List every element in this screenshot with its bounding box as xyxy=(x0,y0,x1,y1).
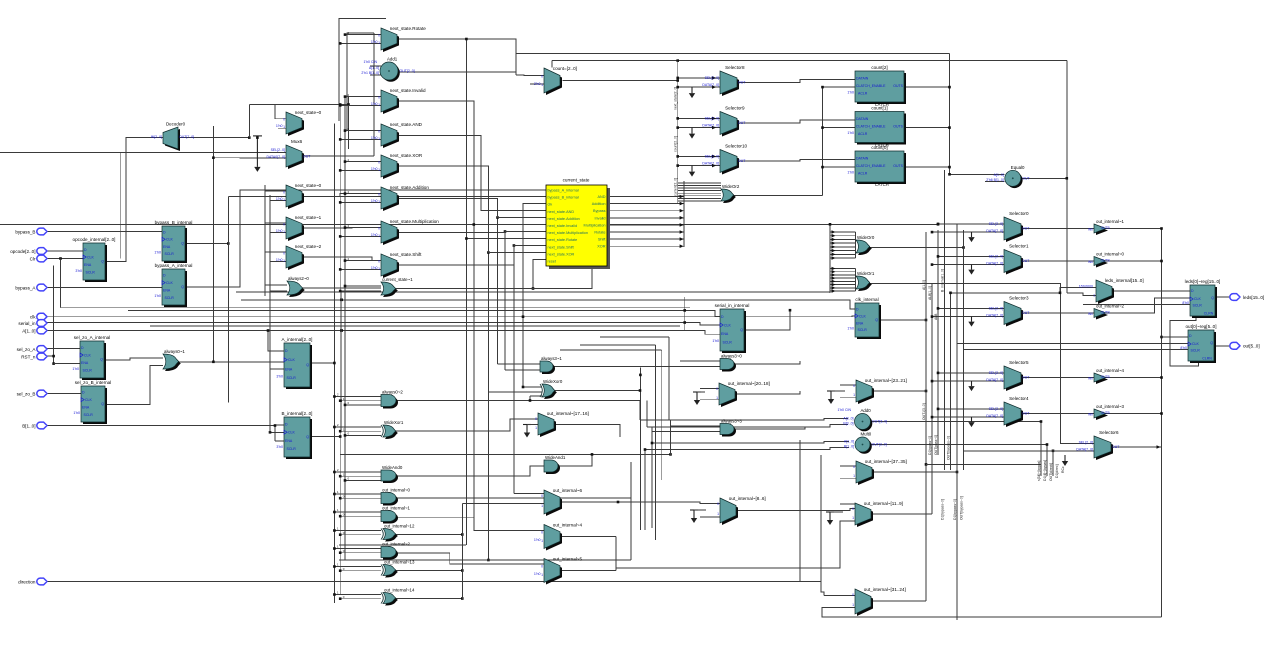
svg-text:out[0]~reg[5..0]: out[0]~reg[5..0] xyxy=(1185,324,1216,329)
svg-text:SEL[2..0]: SEL[2..0] xyxy=(705,76,719,80)
svg-text:0: 0 xyxy=(541,494,543,498)
svg-text:0: 0 xyxy=(378,95,380,99)
svg-text:out_internal~[17..16]: out_internal~[17..16] xyxy=(547,411,589,416)
svg-text:D1[4]~[bypas]: D1[4]~[bypas] xyxy=(1043,460,1047,481)
svg-text:count[2]: count[2] xyxy=(871,65,887,70)
svg-text:RST_n: RST_n xyxy=(21,354,36,359)
svg-text:OUTB: OUTB xyxy=(1101,258,1111,262)
svg-text:OUT[pass~0]: OUT[pass~0] xyxy=(934,435,938,455)
svg-text:Multiplication: Multiplication xyxy=(584,223,606,227)
svg-text:D1[bypass~0]: D1[bypass~0] xyxy=(953,499,957,520)
svg-text:out_internal~[11..9]: out_internal~[11..9] xyxy=(864,501,903,506)
svg-text:DATAIN: DATAIN xyxy=(856,77,869,81)
svg-text:1'h0: 1'h0 xyxy=(847,90,854,94)
svg-text:2'h6 B[1..0]: 2'h6 B[1..0] xyxy=(986,178,1004,182)
svg-text:bypass_A_internal: bypass_A_internal xyxy=(548,189,579,193)
svg-text:OUT1[3..0]: OUT1[3..0] xyxy=(922,403,926,420)
svg-text:OUT[7..0]: OUT[7..0] xyxy=(179,135,194,139)
svg-text:OUTB: OUTB xyxy=(1101,375,1111,379)
svg-text:Q: Q xyxy=(875,318,878,322)
svg-text:Q: Q xyxy=(740,328,743,332)
svg-text:current[2..0]: current[2..0] xyxy=(674,178,678,196)
svg-text:1'h0: 1'h0 xyxy=(154,294,161,298)
svg-text:ENA: ENA xyxy=(81,361,89,365)
svg-text:ALB[1..0]: ALB[1..0] xyxy=(928,286,932,300)
svg-text:out_internal~[23..21]: out_internal~[23..21] xyxy=(865,378,907,383)
svg-text:DATA[7..0]: DATA[7..0] xyxy=(702,83,719,87)
svg-text:Q: Q xyxy=(181,242,184,246)
svg-text:1'h0: 1'h0 xyxy=(847,131,854,135)
svg-text:SEL[2..0]: SEL[2..0] xyxy=(989,371,1003,375)
svg-text:Equal0: Equal0 xyxy=(1011,165,1025,170)
svg-text:OUTS: OUTS xyxy=(893,84,903,88)
svg-text:next_state.XOR: next_state.XOR xyxy=(548,252,575,256)
svg-text:sel_zo_B_internal: sel_zo_B_internal xyxy=(75,380,112,385)
svg-text:next_state~0: next_state~0 xyxy=(295,110,322,115)
svg-text:SCLR: SCLR xyxy=(1193,304,1203,308)
svg-text:8'h0: 8'h0 xyxy=(1180,346,1187,350)
svg-text:1'h0: 1'h0 xyxy=(73,411,80,415)
svg-text:OUT[2..0]: OUT[2..0] xyxy=(400,69,415,73)
svg-text:1'h0: 1'h0 xyxy=(371,40,378,44)
svg-text:WideOr0: WideOr0 xyxy=(857,235,875,240)
svg-text:1'h0: 1'h0 xyxy=(371,167,378,171)
svg-text:A[1..0]: A[1..0] xyxy=(369,66,379,70)
svg-text:1'h0: 1'h0 xyxy=(847,170,854,174)
svg-text:0: 0 xyxy=(852,593,854,597)
svg-text:bypass_A_internal: bypass_A_internal xyxy=(155,263,193,268)
svg-text:ENA: ENA xyxy=(163,245,171,249)
svg-text:SCLR: SCLR xyxy=(165,252,175,256)
svg-text:clk_internal: clk_internal xyxy=(855,297,878,302)
svg-text:1'h0: 1'h0 xyxy=(276,229,283,233)
svg-text:out_internal~2: out_internal~2 xyxy=(382,541,411,546)
svg-text:IN0: IN0 xyxy=(1088,227,1093,231)
svg-text:Selector10: Selector10 xyxy=(725,144,747,149)
svg-text:DATA[7..0]: DATA[7..0] xyxy=(986,314,1003,318)
svg-text:2'h1 B[1..0]: 2'h1 B[1..0] xyxy=(361,71,379,75)
svg-text:out_internal~12: out_internal~12 xyxy=(384,523,415,528)
svg-text:Mux6: Mux6 xyxy=(291,139,303,144)
svg-text:OUTS: OUTS xyxy=(893,125,903,129)
svg-text:Q: Q xyxy=(100,358,103,362)
svg-text:1: 1 xyxy=(853,393,855,397)
svg-text:Selector3: Selector3 xyxy=(1009,296,1029,301)
svg-text:1: 1 xyxy=(378,234,380,238)
svg-text:out_internal~0: out_internal~0 xyxy=(382,487,411,492)
svg-text:SEL[2..0]: SEL[2..0] xyxy=(989,407,1003,411)
svg-text:0: 0 xyxy=(716,387,718,391)
svg-text:Q: Q xyxy=(181,285,184,289)
svg-text:Selector4: Selector4 xyxy=(1009,396,1029,401)
svg-text:out_internal~4: out_internal~4 xyxy=(553,523,583,528)
svg-text:next_state.Shift: next_state.Shift xyxy=(390,252,422,257)
svg-text:current_state~1: current_state~1 xyxy=(382,277,413,282)
svg-text:D1[direc]: D1[direc] xyxy=(1055,464,1059,478)
svg-text:sel_zo_B: sel_zo_B xyxy=(17,391,36,396)
svg-text:next_state[2..0]: next_state[2..0] xyxy=(674,87,678,110)
svg-text:B[3..0]: B[3..0] xyxy=(843,421,853,425)
svg-text:out_internal~[31..24]: out_internal~[31..24] xyxy=(864,587,906,592)
svg-text:always0~1: always0~1 xyxy=(164,349,185,354)
svg-text:1: 1 xyxy=(283,125,285,129)
svg-text:SEL[2..0]: SEL[2..0] xyxy=(1079,440,1093,444)
svg-text:out_internal~1: out_internal~1 xyxy=(382,505,411,510)
svg-text:DATAIN: DATAIN xyxy=(856,157,869,161)
svg-text:1: 1 xyxy=(535,426,537,430)
svg-text:1: 1 xyxy=(541,539,543,543)
svg-text:WideXor1: WideXor1 xyxy=(384,420,404,425)
svg-text:B_internal[1..0]: B_internal[1..0] xyxy=(941,269,945,292)
svg-text:Q: Q xyxy=(306,435,309,439)
svg-text:1: 1 xyxy=(378,267,380,271)
svg-text:3'h0: 3'h0 xyxy=(276,445,283,449)
svg-text:DATA0[7..0]: DATA0[7..0] xyxy=(266,155,285,159)
svg-text:ACLR: ACLR xyxy=(858,92,868,96)
svg-text:ENA: ENA xyxy=(285,367,293,371)
svg-text:Selector1: Selector1 xyxy=(1009,244,1029,249)
svg-text:1: 1 xyxy=(541,83,543,87)
svg-text:out_internal~5: out_internal~5 xyxy=(553,557,583,562)
svg-text:1: 1 xyxy=(378,168,380,172)
svg-text:SEL[2..0]: SEL[2..0] xyxy=(989,254,1003,258)
svg-text:OUTB: OUTB xyxy=(1101,310,1111,314)
svg-text:Q: Q xyxy=(101,402,104,406)
svg-text:leds_internal[15..0]: leds_internal[15..0] xyxy=(1105,278,1144,283)
svg-text:CLK: CLK xyxy=(84,353,91,357)
svg-text:next_state.XOR: next_state.XOR xyxy=(390,153,423,158)
svg-text:ACLR: ACLR xyxy=(858,132,868,136)
svg-text:1'h0 CIN: 1'h0 CIN xyxy=(837,408,851,412)
svg-text:3'h0: 3'h0 xyxy=(276,374,283,378)
svg-text:SCLR: SCLR xyxy=(858,328,868,332)
svg-text:0: 0 xyxy=(541,75,543,79)
svg-text:OUT[bypass~0]: OUT[bypass~0] xyxy=(947,436,951,460)
svg-text:1'h0: 1'h0 xyxy=(72,367,79,371)
svg-text:1: 1 xyxy=(852,603,854,607)
svg-text:Q: Q xyxy=(1211,296,1214,300)
svg-text:1: 1 xyxy=(378,103,380,107)
svg-text:out_internal~13: out_internal~13 xyxy=(384,559,415,564)
svg-text:OUT[3..0]: OUT[3..0] xyxy=(872,443,887,447)
svg-text:CLRN: CLRN xyxy=(1202,357,1212,361)
svg-text:direction: direction xyxy=(18,579,36,584)
svg-text:0: 0 xyxy=(541,531,543,535)
svg-text:next_state.AND: next_state.AND xyxy=(548,210,575,214)
svg-text:1: 1 xyxy=(1093,294,1095,298)
svg-text:1'h0: 1'h0 xyxy=(534,572,541,576)
svg-text:count[1]: count[1] xyxy=(871,106,887,111)
svg-text:SCLR: SCLR xyxy=(83,369,93,373)
svg-text:0: 0 xyxy=(535,417,537,421)
svg-text:CLK: CLK xyxy=(288,358,295,362)
svg-text:WideAnd0: WideAnd0 xyxy=(382,465,403,470)
svg-text:Mult0: Mult0 xyxy=(861,432,872,437)
svg-text:OUT: OUT xyxy=(1022,376,1030,380)
svg-text:0: 0 xyxy=(541,565,543,569)
svg-text:0: 0 xyxy=(378,129,380,133)
svg-text:ENA: ENA xyxy=(84,263,92,267)
svg-text:8'h0: 8'h0 xyxy=(1182,301,1189,305)
svg-text:B[1..0]: B[1..0] xyxy=(22,423,35,428)
svg-text:0: 0 xyxy=(852,507,854,511)
svg-text:next_state.Shift: next_state.Shift xyxy=(548,245,575,249)
svg-text:SEL[2..0]: SEL[2..0] xyxy=(989,306,1003,310)
svg-text:3'h0: 3'h0 xyxy=(75,269,82,273)
svg-text:CLK: CLK xyxy=(859,314,866,318)
svg-text:bypass_A: bypass_A xyxy=(15,285,36,290)
svg-text:0: 0 xyxy=(378,259,380,263)
svg-text:SCLR: SCLR xyxy=(723,341,733,345)
svg-text:sel_zo_A: sel_zo_A xyxy=(17,347,37,352)
svg-text:opcode[2..0]: opcode[2..0] xyxy=(10,249,35,254)
svg-text:OUT: OUT xyxy=(1022,176,1030,180)
svg-text:SEL[2..0]: SEL[2..0] xyxy=(705,116,719,120)
svg-text:out_internal~1: out_internal~1 xyxy=(1096,219,1125,224)
svg-text:CLK: CLK xyxy=(166,238,173,242)
svg-text:OUT: OUT xyxy=(303,155,311,159)
svg-text:1: 1 xyxy=(283,259,285,263)
svg-text:1'h0: 1'h0 xyxy=(276,197,283,201)
svg-text:DATA[7..0]: DATA[7..0] xyxy=(702,162,719,166)
svg-text:DATA[7..0]: DATA[7..0] xyxy=(986,414,1003,418)
svg-text:Q: Q xyxy=(306,363,309,367)
svg-text:bypass_B: bypass_B xyxy=(15,229,35,234)
svg-text:1: 1 xyxy=(283,198,285,202)
svg-text:DATA[7..0]: DATA[7..0] xyxy=(986,378,1003,382)
svg-text:A[1..0]: A[1..0] xyxy=(922,280,926,290)
svg-text:OUT: OUT xyxy=(738,121,746,125)
svg-text:serial_in: serial_in xyxy=(18,321,36,326)
svg-text:1'h0 CIN: 1'h0 CIN xyxy=(363,60,377,64)
svg-text:CLATCH_ENABLE: CLATCH_ENABLE xyxy=(856,164,886,168)
svg-text:1'h0: 1'h0 xyxy=(371,233,378,237)
svg-text:ENA: ENA xyxy=(721,332,729,336)
svg-text:CLK: CLK xyxy=(288,431,295,435)
svg-text:ENA: ENA xyxy=(163,289,171,293)
svg-text:AND: AND xyxy=(597,195,605,199)
svg-text:always3~1: always3~1 xyxy=(541,356,562,361)
svg-text:1: 1 xyxy=(716,396,718,400)
svg-text:next_state~0: next_state~0 xyxy=(295,183,322,188)
svg-text:SCLR: SCLR xyxy=(287,447,297,451)
svg-text:next_state.Addition: next_state.Addition xyxy=(548,217,580,221)
svg-text:clk: clk xyxy=(548,203,553,207)
svg-text:OUT: OUT xyxy=(738,81,746,85)
svg-text:DATA[7..0]: DATA[7..0] xyxy=(1076,448,1093,452)
svg-text:next_state.Multiplication: next_state.Multiplication xyxy=(390,219,439,224)
svg-text:SEL[2..0]: SEL[2..0] xyxy=(271,148,285,152)
svg-text:1'h0: 1'h0 xyxy=(534,538,541,542)
svg-text:next_state.Multiplication: next_state.Multiplication xyxy=(548,231,589,235)
svg-text:Selector0: Selector0 xyxy=(1009,211,1029,216)
svg-text:always2~0: always2~0 xyxy=(288,276,309,281)
svg-text:OUT[directi]: OUT[directi] xyxy=(1049,463,1053,481)
svg-text:A[3..0]: A[3..0] xyxy=(843,416,853,420)
svg-text:1'h0: 1'h0 xyxy=(847,327,854,331)
svg-text:ACLR: ACLR xyxy=(858,172,868,176)
svg-text:SCLR: SCLR xyxy=(86,271,96,275)
svg-text:1: 1 xyxy=(378,137,380,141)
svg-text:1: 1 xyxy=(283,230,285,234)
svg-text:1'h0: 1'h0 xyxy=(371,199,378,203)
svg-text:s[34]~[bypas]: s[34]~[bypas] xyxy=(1037,461,1041,481)
svg-text:Clr: Clr xyxy=(30,256,36,261)
svg-text:leds[0]~reg[15..0]: leds[0]~reg[15..0] xyxy=(1185,279,1221,284)
svg-text:OUT: OUT xyxy=(1022,227,1030,231)
svg-text:0: 0 xyxy=(378,160,380,164)
svg-text:out_internal~[8..6]: out_internal~[8..6] xyxy=(729,496,766,501)
svg-text:OUT[bypass~0]: OUT[bypass~0] xyxy=(960,496,964,520)
svg-text:OUT[3..0]: OUT[3..0] xyxy=(872,420,887,424)
svg-text:Addition: Addition xyxy=(592,202,606,206)
svg-text:0: 0 xyxy=(378,192,380,196)
svg-text:SEL[2..0]: SEL[2..0] xyxy=(705,154,719,158)
svg-text:1: 1 xyxy=(541,504,543,508)
svg-text:SCLR: SCLR xyxy=(287,376,297,380)
svg-text:always3~0: always3~0 xyxy=(721,353,742,358)
svg-text:0: 0 xyxy=(853,465,855,469)
svg-text:ENA: ENA xyxy=(285,439,293,443)
svg-text:A[1..0]: A[1..0] xyxy=(22,328,35,333)
svg-text:SCLR: SCLR xyxy=(165,296,175,300)
svg-text:CLK: CLK xyxy=(724,323,731,327)
svg-text:SCLR: SCLR xyxy=(1191,349,1201,353)
svg-text:next_state.AND: next_state.AND xyxy=(390,122,423,127)
svg-text:IN0: IN0 xyxy=(1088,376,1093,380)
svg-text:OUT: OUT xyxy=(738,159,746,163)
svg-text:A[1..0]: A[1..0] xyxy=(844,439,854,443)
svg-text:count=[2..0]: count=[2..0] xyxy=(553,66,577,71)
svg-text:Rotate: Rotate xyxy=(594,231,605,235)
svg-text:CLK: CLK xyxy=(166,281,173,285)
svg-text:CLRN: CLRN xyxy=(1204,312,1214,316)
svg-text:OUTS: OUTS xyxy=(893,164,903,168)
svg-text:A[1..0]: A[1..0] xyxy=(994,173,1004,177)
svg-text:1: 1 xyxy=(852,516,854,520)
svg-text:Add1: Add1 xyxy=(387,57,398,62)
svg-text:WideOr2: WideOr2 xyxy=(722,184,740,189)
svg-text:current_state: current_state xyxy=(563,178,590,183)
svg-text:DATA[7..0]: DATA[7..0] xyxy=(986,229,1003,233)
svg-text:ENA: ENA xyxy=(856,321,864,325)
svg-text:SEL[2..0]: SEL[2..0] xyxy=(989,222,1003,226)
svg-text:count[2..0]: count[2..0] xyxy=(674,136,678,152)
svg-text:A_internal[2..0]: A_internal[2..0] xyxy=(282,337,313,342)
svg-text:WideOr1: WideOr1 xyxy=(857,271,875,276)
svg-text:CLK: CLK xyxy=(87,255,94,259)
svg-text:CLATCH_ENABLE: CLATCH_ENABLE xyxy=(856,84,886,88)
svg-text:D1[ypass~0]: D1[ypass~0] xyxy=(928,436,932,455)
svg-text:Q: Q xyxy=(101,260,104,264)
svg-text:LATCH: LATCH xyxy=(875,182,888,187)
svg-text:1: 1 xyxy=(853,474,855,478)
svg-text:B_internal[2..0]: B_internal[2..0] xyxy=(282,411,313,416)
svg-text:DATA[7..0]: DATA[7..0] xyxy=(702,124,719,128)
svg-text:SCLR: SCLR xyxy=(84,413,94,417)
svg-text:next_state~2: next_state~2 xyxy=(295,244,322,249)
svg-text:CLK: CLK xyxy=(85,398,92,402)
svg-text:1: 1 xyxy=(378,200,380,204)
svg-text:1: 1 xyxy=(378,41,380,45)
svg-text:WideAnd1: WideAnd1 xyxy=(545,455,566,460)
svg-text:OUTB: OUTB xyxy=(1101,411,1111,415)
svg-text:opcode_internal[2..0]: opcode_internal[2..0] xyxy=(73,237,116,242)
svg-text:sel_zo_A_internal: sel_zo_A_internal xyxy=(74,335,111,340)
svg-text:out[5..0]: out[5..0] xyxy=(1243,344,1260,349)
svg-text:next_state.Invalid: next_state.Invalid xyxy=(548,224,578,228)
svg-text:0: 0 xyxy=(378,226,380,230)
svg-text:Add0: Add0 xyxy=(861,408,872,413)
svg-text:next_state.Invalid: next_state.Invalid xyxy=(390,88,426,93)
svg-text:B[1..0]: B[1..0] xyxy=(844,444,854,448)
svg-text:DATA[7..0]: DATA[7..0] xyxy=(986,262,1003,266)
svg-text:Decoder0: Decoder0 xyxy=(166,122,186,127)
svg-text:0: 0 xyxy=(378,33,380,37)
svg-text:next_state.Addition: next_state.Addition xyxy=(390,185,430,190)
svg-text:always0~2: always0~2 xyxy=(382,389,403,394)
svg-text:1'h0: 1'h0 xyxy=(371,102,378,106)
svg-text:1: 1 xyxy=(717,512,719,516)
svg-text:WideXor0: WideXor0 xyxy=(543,379,563,384)
svg-text:CLK: CLK xyxy=(1194,297,1201,301)
svg-text:1: 1 xyxy=(541,573,543,577)
svg-text:1'h0: 1'h0 xyxy=(712,339,719,343)
svg-text:IN[2..0]: IN[2..0] xyxy=(151,135,162,139)
svg-text:0: 0 xyxy=(283,222,285,226)
svg-text:reset: reset xyxy=(548,260,557,264)
svg-text:bypass_B_internal: bypass_B_internal xyxy=(548,196,579,200)
svg-text:DATAIN: DATAIN xyxy=(856,117,869,121)
svg-text:IN0: IN0 xyxy=(1088,260,1093,264)
svg-text:2'h0: 2'h0 xyxy=(534,82,541,86)
svg-text:bypass_B_internal: bypass_B_internal xyxy=(155,220,193,225)
svg-text:0: 0 xyxy=(717,502,719,506)
svg-text:OUT: OUT xyxy=(1112,445,1120,449)
svg-text:Selector6: Selector6 xyxy=(1099,430,1119,435)
svg-text:XOR: XOR xyxy=(597,245,605,249)
svg-text:Selector9: Selector9 xyxy=(725,106,745,111)
svg-text:OUT: OUT xyxy=(1022,311,1030,315)
svg-text:out_internal~[20..18]: out_internal~[20..18] xyxy=(728,381,770,386)
svg-text:next_state.Rotate: next_state.Rotate xyxy=(390,26,426,31)
svg-text:out_internal~[37..35]: out_internal~[37..35] xyxy=(865,459,907,464)
svg-text:clk: clk xyxy=(30,315,36,320)
svg-text:next_state.Rotate: next_state.Rotate xyxy=(548,238,578,242)
svg-text:0: 0 xyxy=(283,190,285,194)
svg-text:1'h0: 1'h0 xyxy=(154,250,161,254)
svg-text:out_internal~0: out_internal~0 xyxy=(1096,251,1125,256)
svg-text:OUT: OUT xyxy=(1022,412,1030,416)
svg-text:ENA: ENA xyxy=(82,406,90,410)
svg-text:0: 0 xyxy=(283,117,285,121)
svg-text:D1[bypass~0]: D1[bypass~0] xyxy=(941,499,945,520)
svg-text:count[0]: count[0] xyxy=(871,145,887,150)
svg-text:OUTB: OUTB xyxy=(1101,226,1111,230)
svg-text:CLK: CLK xyxy=(1192,342,1199,346)
svg-text:Invalid: Invalid xyxy=(595,216,606,220)
svg-text:Shift: Shift xyxy=(598,238,607,242)
svg-text:CLATCH_ENABLE: CLATCH_ENABLE xyxy=(856,125,886,129)
svg-text:ALB: ALB xyxy=(934,313,938,320)
svg-text:out_internal~4: out_internal~4 xyxy=(1096,368,1125,373)
svg-text:Selector8: Selector8 xyxy=(725,65,745,70)
svg-text:RCx: RCx xyxy=(1061,466,1065,473)
svg-text:next_state~1: next_state~1 xyxy=(295,215,322,220)
svg-text:1'h0: 1'h0 xyxy=(371,136,378,140)
svg-text:always3~3: always3~3 xyxy=(721,418,742,423)
svg-text:0: 0 xyxy=(853,384,855,388)
